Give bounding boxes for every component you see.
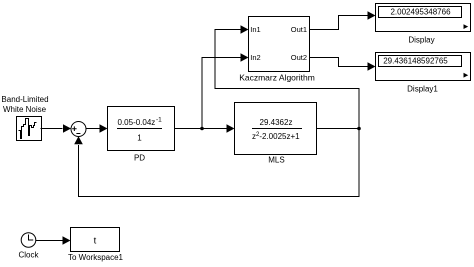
svg-text:z2-2.0025z+1: z2-2.0025z+1	[252, 132, 300, 141]
wire Out1 to Display	[310, 11, 376, 29]
junction node on PD output	[200, 127, 204, 131]
svg-text:29.4362z: 29.4362z	[260, 118, 293, 127]
svg-text:Kaczmarz Algorithm: Kaczmarz Algorithm	[239, 73, 315, 83]
wire sum to PD	[86, 124, 108, 133]
svg-text:MLS: MLS	[268, 156, 284, 165]
svg-text:Clock: Clock	[18, 251, 39, 260]
svg-text:2.002495348766: 2.002495348766	[390, 8, 451, 17]
label Band-Limited White Noise	[1, 95, 48, 114]
block PD (discrete filter)	[108, 107, 175, 151]
svg-text:0.05-0.04z: 0.05-0.04z	[118, 118, 156, 127]
wire Out2 to Display1	[310, 58, 376, 71]
block Clock	[21, 233, 36, 248]
junction node on MLS output	[357, 127, 361, 131]
wire Clock to To Workspace1	[36, 236, 71, 245]
svg-text:Band-Limited: Band-Limited	[1, 95, 48, 104]
block Display	[376, 4, 471, 32]
wire PD to MLS	[175, 124, 235, 133]
sum block	[71, 122, 86, 137]
svg-text:29.436148592765: 29.436148592765	[383, 57, 448, 66]
block Band-Limited White Noise	[17, 117, 42, 141]
block MLS (discrete transfer fcn)	[235, 103, 317, 155]
svg-text:White Noise: White Noise	[3, 105, 47, 114]
svg-text:t: t	[94, 236, 97, 247]
svg-text:Out2: Out2	[291, 53, 307, 62]
wire noise to sum	[41, 124, 72, 133]
block To Workspace1	[71, 228, 120, 252]
svg-text:Display: Display	[408, 35, 434, 44]
svg-text:-1: -1	[156, 117, 162, 124]
svg-text:PD: PD	[134, 154, 145, 163]
svg-text:In2: In2	[250, 53, 260, 62]
svg-text:In1: In1	[250, 25, 260, 34]
wire branch to In1	[215, 25, 359, 128]
svg-text:Out1: Out1	[291, 25, 307, 34]
wire MLS output	[317, 128, 360, 130]
wire feedback to sum	[74, 129, 359, 197]
svg-text:1: 1	[137, 134, 142, 143]
block Display1	[376, 53, 471, 81]
wire branch to In2	[202, 53, 249, 128]
block Kaczmarz Algorithm	[249, 17, 310, 72]
svg-text:To Workspace1: To Workspace1	[68, 253, 124, 262]
svg-text:Display1: Display1	[407, 85, 438, 94]
